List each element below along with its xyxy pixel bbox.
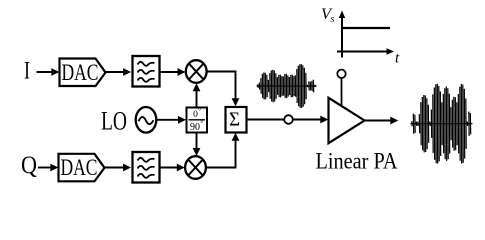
wire DAC U1 to filter F1 (106, 71, 126, 73)
wire phase splitter to mixer X1 (196, 89, 198, 108)
svg-text:°: ° (198, 107, 201, 115)
wire filter F1 to mixer X1 (160, 71, 180, 73)
svg-text:DAC: DAC (61, 155, 98, 180)
svg-text:°: ° (200, 120, 203, 128)
svg-text:Linear PA: Linear PA (316, 148, 398, 173)
wire DAC U2 to filter F2 (105, 167, 126, 169)
svg-text:90: 90 (190, 122, 200, 133)
filter F2 (bandpass filter) (133, 152, 160, 183)
svg-text:t: t (395, 51, 400, 67)
wire supply to PA (341, 78, 343, 107)
amplifier PA1 (linear PA triangle) (329, 98, 365, 143)
wire filter F2 to mixer X2 (160, 167, 179, 169)
svg-text:Q: Q (21, 152, 37, 179)
signal waveform (amplified, after PA) (411, 84, 473, 164)
wire mixer X2 to summer (206, 139, 236, 168)
wire PA output (365, 120, 393, 122)
Vs graph step level (342, 27, 390, 29)
DAC U1 (60, 59, 106, 87)
svg-text:LO: LO (101, 107, 127, 136)
phase splitter U3 (0/90 degree) (187, 108, 208, 133)
wire summer to PA (247, 119, 323, 121)
mixer X1 (186, 60, 207, 83)
wire mixer X1 to summer (207, 72, 236, 101)
summer U4 (sigma adder) (226, 107, 247, 133)
svg-text:DAC: DAC (62, 60, 99, 85)
wire Q to DAC U2 (38, 167, 52, 169)
mixer X2 (185, 156, 206, 179)
svg-text:Σ: Σ (229, 109, 240, 131)
Vs graph y-axis (341, 16, 343, 58)
wire oscillator to phase splitter (157, 119, 181, 121)
signal waveform (modulated, before PA) (257, 64, 317, 108)
svg-text:I: I (24, 58, 30, 85)
Vs graph x-axis (337, 51, 388, 53)
supply terminal (open circle) (337, 70, 345, 78)
node (open circle on PA input wire) (284, 115, 293, 124)
wire I to DAC U1 (37, 71, 54, 73)
wire phase splitter to mixer X2 (196, 133, 198, 151)
svg-text:s: s (331, 14, 335, 25)
DAC U2 (59, 154, 105, 182)
filter F1 (bandpass filter) (133, 56, 160, 87)
oscillator LO (local oscillator) (136, 107, 157, 133)
